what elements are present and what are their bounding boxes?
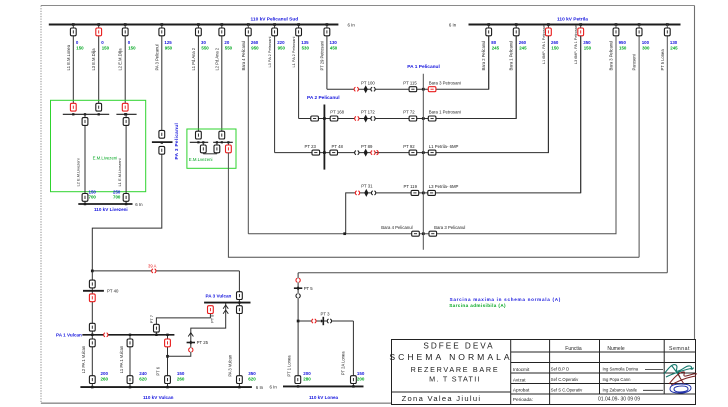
transformer box bottom L1 <box>123 194 129 202</box>
drawout chevron PA3 Vulcan lower <box>223 310 228 314</box>
wire departure L1 E.M.Livezeni <box>125 114 127 204</box>
svg-text:550: 550 <box>225 45 233 50</box>
svg-text:530: 530 <box>302 45 310 50</box>
breaker R1 Bara 2 Pelicanul <box>487 23 490 26</box>
breaker R6 Paroseni <box>638 23 641 26</box>
disconnector row4 right <box>428 190 436 195</box>
separator PT 100 right <box>371 87 375 91</box>
disconnector PT 72 <box>409 116 417 121</box>
wire PT 2A drop <box>352 321 354 386</box>
svg-text:550: 550 <box>201 45 209 50</box>
transformer box PA 3 Vulcan <box>237 376 243 384</box>
svg-text:Zona Valea Jiului: Zona Valea Jiului <box>402 394 482 403</box>
svg-text:260: 260 <box>177 376 185 381</box>
red disconnector box2 tie to Paroseni <box>227 142 229 152</box>
disconnector Bara 4 Pelicanul <box>412 231 420 236</box>
svg-text:700: 700 <box>113 194 121 199</box>
signature line Vasile <box>643 389 663 391</box>
node row3 PA2 bus <box>323 151 326 154</box>
drawing frame bottom <box>41 402 695 404</box>
separator PT 5 red <box>296 278 300 282</box>
svg-text:150: 150 <box>102 45 110 50</box>
separator red on PA 1 Vulcan bus <box>104 333 108 337</box>
bus 110 kV Vulcan <box>80 386 252 388</box>
breaker PT 100 <box>364 85 368 93</box>
svg-text:110 kV Livezeni: 110 kV Livezeni <box>94 207 128 212</box>
svg-text:Bara 1 Petrosani: Bara 1 Petrosani <box>429 110 461 115</box>
svg-text:PA 3 Vulcan: PA 3 Vulcan <box>228 354 233 377</box>
breaker d8 L3 PA 2 Petrosani <box>273 23 276 26</box>
svg-text:150: 150 <box>128 45 136 50</box>
svg-text:150: 150 <box>619 45 627 50</box>
svg-text:150: 150 <box>357 371 365 376</box>
svg-text:Functia: Functia <box>565 346 582 352</box>
separator PT 89 red <box>371 151 375 155</box>
tie jumper in box2 <box>203 153 217 155</box>
svg-text:Intocmit: Intocmit <box>513 367 530 372</box>
svg-text:PT 31: PT 31 <box>361 184 373 189</box>
breaker red below PA 3 Vulcan bus <box>208 306 214 314</box>
svg-text:PA 3 Vulcan: PA 3 Vulcan <box>206 293 232 298</box>
wire Vulcan tie line <box>92 270 239 272</box>
svg-text:Sarcina admisibila (A): Sarcina admisibila (A) <box>449 303 506 308</box>
title block row lines <box>511 351 696 353</box>
svg-text:110 kV Vulcan: 110 kV Vulcan <box>143 395 174 400</box>
node row3 PA1 <box>422 151 425 154</box>
disconnector PT 115 <box>409 87 417 92</box>
svg-text:PT 119: PT 119 <box>404 184 418 189</box>
svg-text:PT 1 Lonea: PT 1 Lonea <box>287 355 292 377</box>
svg-text:6 In: 6 In <box>256 385 264 390</box>
wire row1 Bara 3 Petrosani <box>327 36 489 89</box>
svg-text:Bara 3 Pelicanul: Bara 3 Pelicanul <box>434 225 465 230</box>
bus 110 kV Livezeni <box>78 203 132 205</box>
svg-text:Ing Zabarca Vasile: Ing Zabarca Vasile <box>603 387 638 392</box>
svg-text:150: 150 <box>177 371 185 376</box>
svg-text:150: 150 <box>584 45 592 50</box>
svg-text:PT 6: PT 6 <box>156 366 161 375</box>
disconnector PA3 Pelicanul upper <box>159 130 165 138</box>
signature blue stamp <box>670 384 691 393</box>
svg-text:L3 PA 2 Petrosani: L3 PA 2 Petrosani <box>267 37 272 68</box>
svg-text:L2 Pd.Ana 2: L2 Pd.Ana 2 <box>214 47 219 70</box>
node PT 6 junction <box>166 355 169 358</box>
svg-text:Sef S C.Operativ: Sef S C.Operativ <box>551 387 583 392</box>
breaker R4 L3 6MP-PA 1 Petrosani <box>579 23 582 26</box>
svg-text:PT 72: PT 72 <box>403 110 415 115</box>
svg-text:Ing Samoila Dorina: Ing Samoila Dorina <box>603 367 639 372</box>
breaker PT 40 red <box>89 294 95 302</box>
wire PT 6 feeder <box>167 335 169 387</box>
breaker box2 at d6 <box>219 131 225 139</box>
svg-text:PT 8: PT 8 <box>209 314 214 323</box>
wire tie line box2 to Paroseni riser <box>228 153 639 258</box>
svg-text:150: 150 <box>551 45 559 50</box>
drawing frame top <box>41 5 695 7</box>
svg-text:PT 23: PT 23 <box>305 144 317 149</box>
transformer box L2 PA 1 Vulcan <box>89 376 95 384</box>
svg-text:PT 2A Lonea: PT 2A Lonea <box>341 351 346 375</box>
svg-text:PT 48: PT 48 <box>332 144 344 149</box>
transformer box bottom L2 <box>82 194 88 202</box>
svg-text:450: 450 <box>330 45 338 50</box>
disconnector PT 119 <box>411 190 419 195</box>
svg-text:Bara 4 Pelicanul: Bara 4 Pelicanul <box>241 41 246 71</box>
green enclosure E.M.Livezeni 2 <box>187 129 236 168</box>
svg-text:6 In: 6 In <box>135 202 143 207</box>
wire PA 3 Vulcan riser <box>238 271 240 387</box>
svg-text:Bara 2 Pelicanul: Bara 2 Pelicanul <box>481 41 486 71</box>
disconnector on L1 departure <box>123 118 129 126</box>
bus tick1 box2 <box>190 141 208 143</box>
svg-text:PT 172: PT 172 <box>361 110 375 115</box>
breaker PT 6 red <box>165 339 171 347</box>
breaker L2 PA 1 Vulcan <box>89 339 95 347</box>
separator PT 5 lower <box>296 294 300 298</box>
breaker R7 PT 5 Lonea <box>666 23 669 26</box>
svg-text:245: 245 <box>492 45 500 50</box>
svg-text:Bara 3 Petrosani: Bara 3 Petrosani <box>429 80 461 85</box>
svg-text:PA 1 Vulcan: PA 1 Vulcan <box>56 333 82 338</box>
separator PT 31 right <box>372 191 376 195</box>
svg-text:PT 5 Lonea: PT 5 Lonea <box>660 49 665 71</box>
svg-text:Sef B.P D: Sef B.P D <box>551 367 569 372</box>
wire PT 5 Lonea feeder <box>297 273 299 380</box>
svg-text:Aprobat: Aprobat <box>513 388 530 393</box>
svg-text:6 In: 6 In <box>449 23 457 28</box>
svg-text:950: 950 <box>278 45 286 50</box>
svg-text:Sef C.Operativ: Sef C.Operativ <box>551 377 579 382</box>
svg-text:PA 3 Pelicanul: PA 3 Pelicanul <box>154 44 159 70</box>
svg-text:PT 7: PT 7 <box>149 314 154 323</box>
svg-text:PA 2 Pelicanul: PA 2 Pelicanul <box>307 95 340 101</box>
disconnector above PA 3 Vulcan bus <box>237 292 243 300</box>
disconnector PA3 Pelicanul lower <box>159 146 165 154</box>
breaker PT 31 <box>364 189 368 197</box>
disconnector PT 92 <box>409 150 417 155</box>
svg-text:L1 Pd.Ana 2: L1 Pd.Ana 2 <box>191 47 196 70</box>
svg-text:950: 950 <box>165 45 173 50</box>
red disconnector Bara 3 Petrosani <box>428 87 436 92</box>
svg-text:950: 950 <box>251 45 259 50</box>
svg-text:L3 Petrila- 6MP: L3 Petrila- 6MP <box>429 184 459 189</box>
svg-text:L3 6MP- PA 1 Petrosani: L3 6MP- PA 1 Petrosani <box>574 24 578 64</box>
transformer box PT 2A Lonea <box>351 376 357 384</box>
breaker d1 L1 E.M.Lonea <box>72 23 75 26</box>
svg-text:L2 E.M.Livezeni: L2 E.M.Livezeni <box>76 158 81 186</box>
svg-text:110 kV Petrila: 110 kV Petrila <box>557 16 588 22</box>
wire PT 7 branch <box>156 313 210 334</box>
breaker red in box1 at d3 <box>122 103 128 111</box>
separator PT 89 left <box>355 151 359 155</box>
svg-text:Sarcina maxima in schema norma: Sarcina maxima in schema normala (A) <box>450 297 561 302</box>
svg-text:L3 E.M.Dilja: L3 E.M.Dilja <box>91 48 96 71</box>
bus PA 1 Vulcan <box>82 334 174 336</box>
bus PA 1 Pelicanul vertical <box>422 74 424 250</box>
disconnector PT 40 lower <box>89 323 95 331</box>
breaker d10 PT 29 Petrosani <box>326 23 329 26</box>
svg-text:PA 1 Pelicanul: PA 1 Pelicanul <box>407 64 440 70</box>
separator PT 100 red <box>354 87 358 91</box>
svg-text:110 kV Pelicanul Sud: 110 kV Pelicanul Sud <box>251 16 299 22</box>
svg-text:Bara 1 Pelicanul: Bara 1 Pelicanul <box>509 41 514 71</box>
svg-text:PT 25: PT 25 <box>197 340 209 345</box>
transformer box PT 6 <box>165 376 171 384</box>
svg-text:Perioada:: Perioada: <box>513 397 533 402</box>
svg-text:Ing Popa Cann: Ing Popa Cann <box>603 377 632 382</box>
bus PA 3 Vulcan <box>204 302 250 304</box>
separator PT 25 red <box>189 348 193 352</box>
svg-text:PT 100: PT 100 <box>361 80 375 85</box>
svg-text:200: 200 <box>101 371 109 376</box>
bus PA 2 Pelicanul vertical <box>323 105 325 170</box>
wire PT 25 chain <box>168 303 226 357</box>
svg-text:SCHEMA NORMALA: SCHEMA NORMALA <box>389 352 512 362</box>
fuse PT 3 <box>322 317 324 325</box>
disconnector below tick1 <box>202 142 204 154</box>
separator PT 3 red <box>312 319 316 323</box>
disconnector PT 48 <box>330 150 338 155</box>
breaker R5 Bara 3 Pelicanul <box>615 23 618 26</box>
title block column lines <box>510 340 512 405</box>
wire Lonea tie line <box>298 272 667 274</box>
title block frame <box>392 340 696 405</box>
svg-text:Numele: Numele <box>607 346 624 352</box>
node row2 PA2 bus <box>323 117 326 120</box>
transformer box L1 PA 1 Vulcan <box>127 376 133 384</box>
node Lonea junction <box>297 320 300 323</box>
bus 110 kV Pelicanul Sud <box>49 24 339 26</box>
breaker R2 Bara 1 Pelicanul <box>515 23 518 26</box>
svg-text:150: 150 <box>76 45 84 50</box>
svg-text:Avizat: Avizat <box>513 377 526 382</box>
svg-text:PT 40: PT 40 <box>107 288 119 293</box>
svg-text:Paroseni: Paroseni <box>632 54 637 70</box>
drawing frame right <box>694 6 696 404</box>
svg-text:PT 3: PT 3 <box>321 311 331 316</box>
svg-text:E.M.Livezeni: E.M.Livezeni <box>93 156 118 161</box>
breaker d3 L2 E.M.Dilja <box>124 23 127 26</box>
wire row2 Bara 1 Petrosani <box>299 36 517 119</box>
svg-text:L1 PA 1 Vulcan: L1 PA 1 Vulcan <box>119 345 124 373</box>
separator 39 A red <box>152 269 156 273</box>
wire row4 L3 Petrila-6MP <box>346 36 581 234</box>
disconnector on L2 departure <box>82 118 88 126</box>
disconnector PT 40 upper <box>89 280 95 288</box>
svg-text:PA 3 Pelicanul: PA 3 Pelicanul <box>174 123 179 160</box>
node row2 PA1 <box>422 117 425 120</box>
breaker d9 L1 PA 2 Petrosani <box>297 23 300 26</box>
svg-text:PT 29 Petrosani: PT 29 Petrosani <box>319 41 324 70</box>
disconnector row3 right <box>428 150 436 155</box>
bus tick2 box2 <box>213 141 233 143</box>
svg-text:620: 620 <box>248 376 256 381</box>
svg-text:PT 168: PT 168 <box>330 110 344 115</box>
svg-text:E.M.Lvezeni: E.M.Lvezeni <box>189 157 213 162</box>
svg-text:01.04.09- 30 09 09: 01.04.09- 30 09 09 <box>598 397 640 403</box>
disconnector below PA 3 Vulcan bus <box>237 306 243 314</box>
wire L1 PA 1 Vulcan <box>129 335 131 387</box>
svg-text:M. T STATII: M. T STATII <box>429 375 481 384</box>
drawing frame left dotted <box>40 6 42 404</box>
node row5 PA1 <box>422 232 425 235</box>
svg-text:260: 260 <box>101 376 109 381</box>
wire PT 40 feeder <box>91 271 93 387</box>
disconnector Bara 3 Pelicanul <box>429 231 437 236</box>
transformer box PT 1 Lonea <box>295 376 301 384</box>
breaker d5 L1 Pd.Ana 2 <box>197 23 200 26</box>
separator PT 172 red <box>355 117 359 121</box>
svg-text:240: 240 <box>139 371 147 376</box>
disconnector PT 23 <box>312 150 320 155</box>
fuse PT 5 <box>294 287 302 289</box>
svg-text:620: 620 <box>139 376 147 381</box>
svg-text:PT 92: PT 92 <box>403 144 415 149</box>
svg-text:110 kV Lonea: 110 kV Lonea <box>309 395 339 400</box>
wire PT 3 branch <box>298 320 353 322</box>
svg-text:L1 E.M.Lonea: L1 E.M.Lonea <box>66 44 71 70</box>
node row5 row4 tie <box>343 232 346 235</box>
drawout chevron PT 25 <box>188 333 193 337</box>
wire PA3 Pelicanul to Vulcan section <box>92 154 162 271</box>
disconnector row2 right <box>428 116 436 121</box>
breaker in box1 at d2 <box>96 103 102 111</box>
svg-text:245: 245 <box>519 45 527 50</box>
breaker PT 89 <box>364 149 368 157</box>
disconnector PT 7 <box>154 324 160 332</box>
svg-text:REZERVARE BARE: REZERVARE BARE <box>411 365 500 374</box>
svg-text:6 In: 6 In <box>270 385 278 390</box>
svg-text:L2 E.M.Dilja: L2 E.M.Dilja <box>118 48 123 71</box>
signature line Dorina <box>645 369 663 371</box>
svg-text:39 A: 39 A <box>148 263 157 268</box>
disconnector below tick2 left <box>216 142 218 154</box>
breaker R3 L1 6MP-PA 1 Petrosani <box>547 23 550 26</box>
breaker d4 PA 3 Pelicanul feeder <box>160 23 163 26</box>
svg-text:Bara 4 Pelicanul: Bara 4 Pelicanul <box>381 225 412 230</box>
separator PT 31 red <box>356 191 360 195</box>
svg-text:PT 5: PT 5 <box>304 286 314 291</box>
drawout chevron PA3 Vulcan upper <box>223 305 228 309</box>
bus tick2 box1 <box>116 113 136 115</box>
separator PT 172 right <box>371 117 375 121</box>
wire departure L2 E.M.Livezeni <box>84 114 86 204</box>
svg-text:SDFEE DEVA: SDFEE DEVA <box>423 342 494 351</box>
svg-text:700: 700 <box>89 194 97 199</box>
wire row5 Bara 4 / Bara 3 Pelicanul <box>248 36 616 234</box>
svg-text:200: 200 <box>303 371 311 376</box>
signature teal <box>664 365 694 377</box>
breaker PT 172 <box>364 115 368 123</box>
svg-text:6 In: 6 In <box>348 23 356 28</box>
disconnector PT 168 <box>330 116 338 121</box>
svg-text:L1 E.M.Livezeni: L1 E.M.Livezeni <box>117 158 122 186</box>
bus tick1 box1 <box>63 113 109 115</box>
green enclosure E.M.Livezeni 1 <box>51 100 146 191</box>
node row1 PA1 <box>422 88 425 91</box>
bus tick PA3 Pelicanul <box>152 141 173 143</box>
svg-text:PT 89: PT 89 <box>361 144 373 149</box>
svg-text:L1 PA 2 Petrosani: L1 PA 2 Petrosani <box>291 37 296 68</box>
svg-text:300: 300 <box>642 45 650 50</box>
svg-text:PT 115: PT 115 <box>403 80 417 85</box>
breaker d7 Bara 4 Pelicanul <box>247 23 250 26</box>
svg-text:L1 Petrila- 6MP: L1 Petrila- 6MP <box>429 144 459 149</box>
breaker d6 L2 Pd.Ana 2 <box>220 23 223 26</box>
breaker L1 PA 1 Vulcan <box>127 339 133 347</box>
svg-text:L1 6MP- PA 1 Petrosani: L1 6MP- PA 1 Petrosani <box>542 24 546 64</box>
node row4 PA1 <box>422 192 425 195</box>
svg-text:280: 280 <box>303 376 311 381</box>
disconnector row2 left <box>311 116 319 121</box>
bus tick PT 40 <box>83 290 104 292</box>
separator PT 3 right <box>327 319 331 323</box>
svg-text:Semnat: Semnat <box>669 346 690 352</box>
svg-text:Bara 3 Pelicanul: Bara 3 Pelicanul <box>609 41 614 71</box>
signature dark red <box>669 372 697 385</box>
breaker d2 L3 E.M.Dilja <box>97 23 100 26</box>
svg-text:350: 350 <box>248 371 256 376</box>
wire row3 L1 Petrila-6MP <box>275 36 549 153</box>
svg-text:245: 245 <box>670 45 678 50</box>
bus 110 kV Lonea <box>283 385 364 387</box>
fuse PT 25 <box>187 342 195 344</box>
svg-text:L2 PA 1 Vulcan: L2 PA 1 Vulcan <box>81 345 86 373</box>
breaker box2 at d5 <box>196 131 202 139</box>
svg-text:200: 200 <box>357 376 365 381</box>
bus 110 kV Petrila <box>469 24 681 26</box>
breaker red in box1 at d1 <box>70 103 76 111</box>
